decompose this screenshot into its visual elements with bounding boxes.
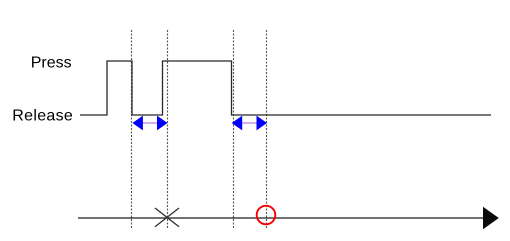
dashed time marker t2 xyxy=(167,30,169,229)
dashed time marker t3 xyxy=(233,30,235,229)
debounce interval arrow 1 right head xyxy=(157,116,168,131)
rejected event X marker stroke 2 xyxy=(155,208,179,227)
debounce interval arrow 1 left head xyxy=(132,116,143,131)
debounce interval arrow 2 shaft xyxy=(242,122,258,124)
debounce interval arrow 2 left head xyxy=(232,116,243,131)
svg-text:Press: Press xyxy=(31,55,72,72)
dashed time marker t1 xyxy=(131,30,133,229)
debounce interval arrow 1 shaft xyxy=(142,122,158,124)
rejected event X marker stroke 1 xyxy=(155,208,179,227)
time axis arrowhead xyxy=(483,207,499,229)
svg-text:Release: Release xyxy=(12,108,73,125)
accepted event circle marker xyxy=(257,206,276,225)
dashed time marker t4 xyxy=(266,30,268,229)
debounce interval arrow 2 right head xyxy=(257,116,268,131)
time axis xyxy=(78,217,486,219)
button signal waveform xyxy=(80,61,491,115)
